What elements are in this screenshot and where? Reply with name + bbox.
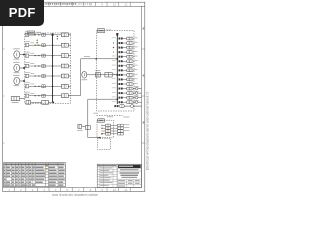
wire to field cable <box>133 92 135 94</box>
wire from TT3 to marshalling panel <box>20 80 25 82</box>
panel name label box <box>28 31 35 35</box>
surge barrier module K2 <box>25 44 28 47</box>
PDF thumbnail badge <box>0 0 44 26</box>
terminal row 8: fuse terminal + relay contact <box>112 68 116 71</box>
wire barrier to bus <box>29 75 53 77</box>
cabinet name label box <box>98 29 105 33</box>
incoming supply row <box>114 105 116 107</box>
junction <box>99 137 101 139</box>
field junction box JB1 <box>11 97 19 101</box>
wire to panel edge <box>69 44 71 46</box>
terminal row 10: fuse terminal + relay contact <box>112 77 116 80</box>
wire to panel edge <box>69 95 71 97</box>
revision table text <box>98 165 117 166</box>
terminal row 12: fuse terminal + relay contact <box>112 86 116 89</box>
revision table lines <box>97 166 117 168</box>
isolator switch S1 <box>78 125 82 129</box>
wire marker red 2 <box>57 36 59 38</box>
wire <box>31 101 42 103</box>
panel note text <box>36 31 41 34</box>
surge barrier module K4 <box>25 64 28 67</box>
terminal row 1: fuse terminal + relay contact <box>112 36 116 39</box>
wire to field cable <box>133 101 135 103</box>
table header text <box>4 164 64 166</box>
relay output pair KA6 <box>53 85 62 87</box>
wire from PT2 to marshalling panel <box>20 67 25 69</box>
terminal row 13: fuse terminal + relay contact <box>112 91 116 94</box>
wire to field cable <box>133 97 135 99</box>
power meter M1 <box>82 72 87 79</box>
wire marker <box>113 42 114 43</box>
border column ticks bottom <box>13 188 15 192</box>
wire <box>133 105 141 107</box>
bus feed block <box>52 33 54 35</box>
wire to panel edge <box>69 34 71 36</box>
panel internal supply bus <box>52 35 54 103</box>
bus feed block <box>116 33 118 36</box>
wire to panel edge <box>69 85 71 87</box>
border row ticks left <box>3 48 5 50</box>
wire <box>82 126 86 128</box>
wire marker green <box>36 39 38 41</box>
wire barrier to bus <box>29 95 53 97</box>
spare enclosure (dashed, empty) <box>97 138 110 149</box>
junction at bus <box>117 58 119 60</box>
wire barrier to bus <box>29 65 53 67</box>
surge barrier module K7 <box>25 94 28 97</box>
terminal row 5: fuse terminal + relay contact <box>112 55 116 58</box>
junction at bus <box>117 74 119 76</box>
svg-text:10: 10 <box>113 3 117 7</box>
table status dot yellow <box>46 171 48 173</box>
relay output pair KA2 <box>53 44 62 46</box>
terminal row 15: fuse terminal + relay contact <box>112 100 116 103</box>
wire B: meter to terminal bus <box>87 74 118 76</box>
border numbers smudge band <box>46 3 78 5</box>
wire to panel edge <box>69 65 71 67</box>
wire marker <box>101 130 103 132</box>
wire from FT1 to marshalling panel <box>20 54 25 56</box>
sheet inner border <box>3 5 145 7</box>
note text <box>107 115 113 118</box>
field instrument transmitter FT1 <box>14 51 20 58</box>
terminal block X10 <box>85 126 90 130</box>
junction at bus <box>117 99 119 101</box>
surge barrier module K1 <box>25 33 28 36</box>
junction <box>53 102 55 104</box>
border column ticks top <box>13 2 15 6</box>
surge barrier module K3 <box>25 54 28 57</box>
surge barrier module K6 <box>25 85 28 88</box>
border row ticks right <box>142 48 145 50</box>
field instrument transmitter TT3 <box>14 77 20 84</box>
wire marker <box>101 127 103 129</box>
relay output pair KA7 <box>53 95 62 97</box>
cable schedule table <box>4 163 66 187</box>
table status dot green <box>46 168 48 170</box>
svg-text:8: 8 <box>90 3 92 7</box>
surge barrier module K5 <box>25 74 28 77</box>
svg-text:10: 10 <box>113 188 117 192</box>
bottom terminal row of marshalling panel <box>26 100 31 104</box>
note text <box>123 116 129 119</box>
terminal pair X9 <box>105 72 112 77</box>
wire to panel edge <box>69 75 71 77</box>
wire barrier to bus <box>29 85 53 87</box>
wire marker <box>101 125 103 127</box>
local control box enclosure (dashed) <box>97 120 114 137</box>
cabinet note text <box>106 29 111 32</box>
title block <box>97 164 141 187</box>
wire to field cable <box>133 88 135 90</box>
terminal cabinet enclosure (dashed) <box>97 31 135 111</box>
title block right rows <box>117 167 141 169</box>
drawing title text <box>120 169 139 170</box>
wire to panel edge <box>69 55 71 57</box>
terminal row 11: fuse terminal + relay contact <box>112 82 116 85</box>
svg-text:9: 9 <box>101 3 103 7</box>
terminal supply bus <box>116 33 118 104</box>
cable tag text <box>93 112 98 115</box>
relay output pair KA5 <box>53 75 62 77</box>
svg-text:Electrical wiring diagram pane: Electrical wiring diagram panel and cabi… <box>145 91 149 170</box>
marshalling panel enclosure (dashed) <box>25 33 71 104</box>
junction at enclosure edge <box>96 58 97 59</box>
wire marker red <box>36 42 38 44</box>
relay output pair KA4 <box>53 65 62 67</box>
svg-text:7: 7 <box>78 3 80 7</box>
wire marker <box>101 133 103 135</box>
wire A: loop feed to terminal bus <box>81 58 118 60</box>
terminal row 7: fuse terminal + relay contact <box>112 64 116 67</box>
wire marker green 2 <box>57 38 59 40</box>
terminal row 14: fuse terminal + relay contact <box>112 96 116 99</box>
terminal row 6: fuse terminal + relay contact <box>112 59 116 62</box>
wire marker yellow <box>36 44 38 46</box>
wire marker <box>113 47 114 48</box>
wire from JB1 to marshalling panel <box>20 98 26 100</box>
wire A drop (vertical) <box>79 59 81 96</box>
svg-text:11: 11 <box>124 188 127 192</box>
wire barrier to bus <box>29 34 53 36</box>
svg-text:11: 11 <box>124 3 127 7</box>
wire barrier to bus <box>29 55 53 57</box>
svg-text:dws ilruda dm dnaderm sdrtae: dws ilruda dm dnaderm sdrtae <box>52 193 98 197</box>
terminal row 9: fuse terminal + relay contact <box>112 73 116 76</box>
field instrument transmitter PT2 <box>14 64 20 71</box>
company logo bar <box>118 165 141 168</box>
relay output pair KA3 <box>53 55 62 57</box>
local box label <box>98 119 105 122</box>
inner section boundary (dashed) <box>97 114 123 116</box>
wire marker <box>113 51 114 52</box>
wire <box>124 105 130 107</box>
fuse F1 <box>96 73 101 77</box>
wire barrier to bus <box>29 44 53 46</box>
wire link to panel row 7 <box>71 95 81 97</box>
sheet outer border <box>3 2 145 191</box>
wire C: feed from terminal bus to local panel <box>88 98 118 100</box>
table status dot red <box>46 165 48 167</box>
relay output pair KA1 <box>53 34 62 36</box>
wire <box>48 101 53 103</box>
